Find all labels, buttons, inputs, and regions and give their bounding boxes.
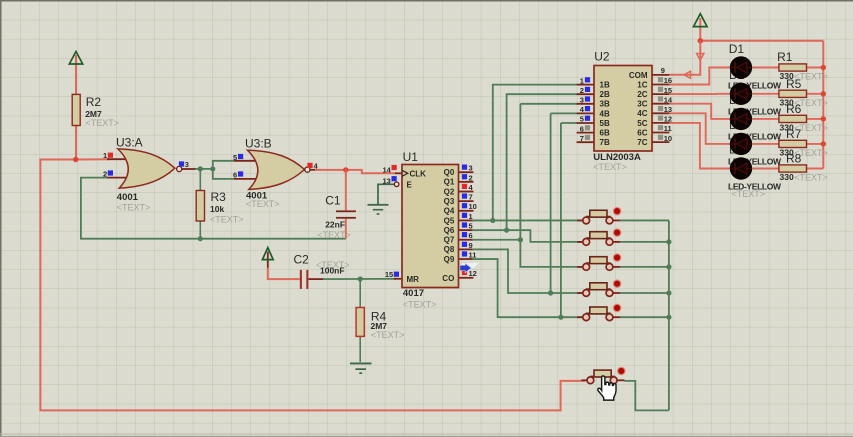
svg-text:U2: U2 [594,49,610,63]
button stubs [577,316,583,318]
svg-text:<TEXT>: <TEXT> [86,118,120,128]
button stubs [577,292,583,294]
svg-text:Q6: Q6 [444,226,455,235]
svg-text:<TEXT>: <TEXT> [593,162,627,172]
U1 E pin label + bubble [394,182,399,187]
wire: R4 bottom lead to ground [359,336,361,362]
wire: button S6 to common bus [625,381,669,411]
svg-text:10: 10 [469,202,477,211]
junction Q7/3B [518,237,523,242]
junction button bus [666,290,671,295]
op-amp U3:B NOR gate [248,150,305,189]
button contacts [583,217,590,224]
button stubs [577,241,583,243]
button body [586,312,611,314]
LED D5 [730,157,752,179]
wire: Q6 to 2B and button S2 [472,230,583,242]
svg-text:R2: R2 [86,95,102,109]
svg-text:5: 5 [233,153,237,162]
wire: U3:B input tie loop [213,161,234,179]
svg-text:4017: 4017 [403,288,424,299]
op-amp U3:A NOR gate [118,149,175,188]
pin stub U1 MR pin15 [394,278,402,280]
wire: button common right-hand bus [620,219,669,221]
marker: blue arrow near pin 12 [462,263,480,268]
svg-text:Q1: Q1 [444,178,455,187]
wire: LED D1 to resistor [753,67,780,69]
svg-text:E: E [407,181,413,190]
svg-text:R1: R1 [777,50,793,64]
svg-text:CO: CO [442,274,454,283]
svg-text:COM: COM [629,71,648,80]
svg-text:<TEXT>: <TEXT> [317,230,351,240]
svg-text:12: 12 [469,269,477,278]
power symbol P3 [694,14,708,27]
svg-text:14: 14 [382,165,391,174]
svg-text:<TEXT>: <TEXT> [210,215,244,225]
svg-text:3B: 3B [600,100,610,109]
svg-text:Q2: Q2 [444,187,455,196]
svg-text:R7: R7 [786,127,802,141]
svg-text:5C: 5C [637,119,647,128]
junction: R3 / feedback net [198,236,203,241]
pin stub U3:B output pin4 [311,169,318,171]
capacitor C1 [336,210,356,212]
wire: resistor row 1 to rail [806,67,823,69]
button state lamp [613,304,622,313]
svg-text:3: 3 [469,164,473,173]
svg-text:Q8: Q8 [444,245,455,254]
svg-text:6: 6 [469,231,473,240]
wire: C1 top lead [345,170,347,210]
svg-text:2: 2 [103,170,107,179]
svg-text:R8: R8 [786,152,802,166]
wire: node A left and down to bottom rail [40,160,585,411]
pin stub U3:A output pin3 [182,168,196,170]
wire: R4 top lead [359,279,361,308]
svg-text:22nF: 22nF [325,220,345,230]
svg-text:U3:A: U3:A [116,135,143,149]
resistor R2 [72,94,80,125]
junction button bus [666,264,671,269]
wire: LED D2 to resistor [753,93,780,95]
wire: U3:A pin2 to feedback net [81,178,346,239]
svg-text:Q0: Q0 [444,168,455,177]
button stubs [581,379,587,381]
pin number 3 + state square [179,161,184,166]
svg-text:2: 2 [469,173,473,182]
svg-text:U3:B: U3:B [245,136,272,150]
svg-text:C2: C2 [294,253,310,267]
junction rail [821,116,826,121]
mouse hand cursor [598,376,616,400]
junction rail [821,141,826,146]
svg-text:1: 1 [580,76,584,85]
svg-text:R6: R6 [786,102,802,116]
button contacts [587,377,594,384]
button state lamp [613,253,622,262]
wire: 1C to LED D1 [669,68,731,85]
button body [586,262,611,264]
button contacts [583,264,590,271]
wire: LED D5 to resistor [753,168,780,170]
svg-text:2C: 2C [637,90,647,99]
pin number 4 + state square [307,163,312,168]
button stubs [577,266,583,268]
wire: resistor row 5 to rail [806,168,823,170]
svg-text:1: 1 [103,151,107,160]
IC U1 4017 body [402,165,459,288]
svg-text:1C: 1C [637,80,647,89]
wire: power P2 to C2 left plate [267,252,269,269]
svg-text:15: 15 [664,86,672,95]
wire: C1 bottom lead to feedback net [345,219,347,239]
svg-text:7: 7 [469,193,473,202]
svg-text:11: 11 [469,250,477,259]
svg-text:15: 15 [385,270,393,279]
svg-text:3C: 3C [637,100,647,109]
junction rail [821,91,826,96]
wire: resistor row 2 to rail [806,93,823,95]
junction Q9-net/5B [558,315,563,320]
svg-text:7C: 7C [637,138,647,147]
svg-text:14: 14 [664,95,673,104]
frame edge shading [0,0,853,2]
IC U2 ULN2003A body [594,66,652,152]
LED D1 [730,56,752,78]
ground symbol GND3 (R4) [350,363,372,365]
wire: resistor row 4 to rail [806,143,823,145]
wire: C2 right plate to MR net [308,278,324,280]
svg-text:1: 1 [469,212,473,221]
wire: LED D3 to resistor [753,118,780,120]
svg-text:16: 16 [664,76,672,85]
junction Q5/1B [490,218,495,223]
button contacts [583,290,590,297]
resistor R6 body [779,115,807,122]
node A junction dot [73,157,78,162]
junction Q6/2B [504,228,509,233]
pin stubs U1 Q0-Q9, CO [459,171,474,173]
svg-text:Q7: Q7 [444,236,455,245]
pin stubs U2 1B-7B [577,84,594,86]
wire: resistor row 3 to rail [806,118,823,120]
ground symbol GND2 (U1 E pin) [368,204,389,206]
button state lamp [613,228,622,237]
svg-text:R3: R3 [211,190,227,204]
svg-text:6: 6 [580,124,584,133]
button state lamp [617,367,626,376]
wire: +V rail on right [822,41,824,169]
svg-text:2B: 2B [600,90,610,99]
svg-text:100nF: 100nF [320,266,345,276]
wire: 3C to LED D3 [669,104,731,119]
svg-text:5: 5 [580,115,584,124]
wire: 2C to LED D2 [669,93,731,95]
button state lamp [613,207,622,216]
svg-text:4C: 4C [637,109,647,118]
power symbol P2 [262,248,273,260]
svg-text:6B: 6B [600,129,610,138]
wire: Q8 to 4B and button S4 [472,249,583,293]
resistor R4 [356,308,364,337]
svg-text:<TEXT>: <TEXT> [371,330,405,340]
resistor R5 body [779,90,807,97]
svg-text:<TEXT>: <TEXT> [732,189,766,199]
U1 pin 12 (CO) number+square [462,270,467,275]
button contacts [583,314,590,321]
junction rail [821,65,826,70]
svg-text:6C: 6C [637,128,647,137]
svg-text:4001: 4001 [117,192,139,203]
LED D4 [730,133,752,155]
svg-text:5: 5 [469,222,473,231]
node E junction (C2 / R4 / MR) [358,276,363,281]
button contacts [583,239,590,246]
wire: Q9 to 5B and button S5 [472,259,583,317]
svg-text:MR: MR [407,275,420,284]
svg-text:330: 330 [780,172,794,182]
wire: 4C to LED D4 [669,113,731,144]
svg-text:12: 12 [664,115,672,124]
wire: U3:B out to U1 CLK and C1 [315,170,396,173]
wire: rail down to COM pin9 (with current arrows) [669,41,700,75]
wire: R3 top lead [199,169,201,191]
svg-text:9: 9 [469,241,473,250]
svg-text:Q5: Q5 [444,216,455,225]
U1 CLK pin label + clock chevron [402,170,408,176]
pin stub U3:B pin5 [234,160,262,162]
svg-text:3: 3 [185,160,189,169]
button body [590,375,615,377]
resistor R1 body [779,64,807,71]
node D junction (U3:B out / C1) [343,167,348,172]
svg-text:R5: R5 [786,77,802,91]
resistor R7 body [779,140,807,147]
button state lamp [613,279,622,288]
svg-text:9: 9 [661,66,665,75]
power symbol P1 [69,52,82,65]
wire: supply net from power P1 down through R2 to node A [75,55,77,160]
button body [586,237,611,239]
pin stub U3:A pin1 [107,158,132,160]
junction Q8-net/4B [548,290,553,295]
wire: LED D4 to resistor [753,143,780,145]
svg-text:11: 11 [664,124,672,133]
wire: U3:A out to U3:B inputs [195,168,213,170]
svg-text:2: 2 [580,86,584,95]
wire: U1 E pin to ground [378,184,397,204]
pin stub U3:B pin6 [234,178,262,180]
svg-text:D1: D1 [729,42,745,56]
svg-text:<TEXT>: <TEXT> [403,299,437,309]
node C junction (U3:B input tie) [210,166,215,171]
pin stub U3:A pin2 [107,177,132,179]
capacitor C2 [300,270,302,289]
svg-text:CLK: CLK [410,169,427,178]
svg-text:Q9: Q9 [444,255,455,264]
svg-text:C1: C1 [325,194,341,208]
junction button bus [666,315,671,320]
wire: R3 bottom lead to feedback net [199,221,201,239]
svg-text:Q3: Q3 [444,197,455,206]
svg-text:5B: 5B [600,119,610,128]
svg-text:10: 10 [664,134,672,143]
svg-text:<TEXT>: <TEXT> [246,199,280,209]
button stubs [577,219,583,221]
button body [586,216,611,218]
node B junction (U3:A out / R3) [198,166,203,171]
wire: Q7 to 3B and button S3 [472,239,520,241]
resistor R8 body [779,165,807,172]
svg-text:13: 13 [664,105,672,114]
svg-text:<TEXT>: <TEXT> [117,203,151,213]
svg-text:7: 7 [580,134,584,143]
wire: 5C to LED D5 [669,123,731,169]
pin stub U1 CLK pin14 [395,172,402,174]
junction button bus [666,239,671,244]
wire: Q5 to 1B and button S1 [472,219,583,221]
pin stubs U2 COM,1C-7C [652,74,669,76]
LED D2 [730,83,752,105]
svg-text:10k: 10k [210,204,224,214]
wire: power P3 to rail and COM [699,18,701,41]
resistor R3 [196,191,204,222]
svg-text:7B: 7B [600,138,610,147]
svg-text:4B: 4B [600,109,610,118]
button body [586,288,611,290]
node F junction (P3 rail) [698,38,704,44]
svg-text:13: 13 [382,176,390,185]
svg-text:1B: 1B [600,81,610,90]
svg-text:U1: U1 [403,150,419,164]
svg-text:<TEXT>: <TEXT> [794,173,828,183]
svg-text:3: 3 [580,96,584,105]
LED D3 [730,108,752,130]
wire: node A to U3:A pin 1 [76,158,110,160]
svg-text:6: 6 [233,170,237,179]
svg-text:Q4: Q4 [444,207,455,216]
